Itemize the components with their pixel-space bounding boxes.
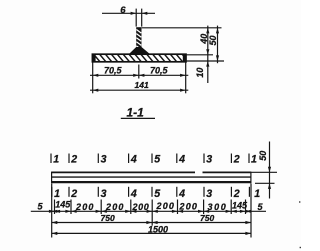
dimension 6 (web thickness) — [102, 5, 155, 26]
dimension 50 (bar height) — [252, 142, 278, 199]
svg-text:70,5: 70,5 — [150, 65, 169, 75]
svg-text:5: 5 — [38, 202, 44, 212]
svg-text:200: 200 — [156, 201, 176, 211]
svg-text:3: 3 — [206, 153, 212, 165]
svg-text:4: 4 — [178, 188, 185, 200]
chain dimension extension lines — [55, 200, 246, 215]
svg-text:141: 141 — [135, 80, 149, 90]
svg-text:3: 3 — [101, 188, 107, 200]
svg-text:5: 5 — [154, 188, 161, 200]
flange plate section — [92, 54, 186, 62]
weld fillets at web base — [129, 47, 151, 54]
svg-text:4: 4 — [130, 188, 137, 200]
svg-text:3: 3 — [206, 188, 212, 200]
svg-text:2: 2 — [233, 153, 240, 165]
svg-text:1: 1 — [53, 153, 59, 165]
svg-text:145: 145 — [55, 199, 71, 209]
svg-text:2: 2 — [70, 188, 77, 200]
dimension 750 left — [52, 213, 251, 224]
svg-text:1: 1 — [251, 153, 257, 165]
dimension 1500 — [52, 225, 251, 235]
svg-text:200: 200 — [105, 202, 125, 212]
extension line from flange top right — [186, 54, 213, 56]
dimension 141 — [90, 80, 188, 92]
extension lines below flange — [93, 63, 186, 94]
chain dimension labels — [38, 199, 264, 212]
web plate section — [136, 27, 141, 49]
extension line from web top — [142, 27, 222, 29]
svg-text:145: 145 — [232, 200, 248, 210]
dimension 50 — [208, 26, 219, 64]
mark ticks and numbers below bar — [52, 187, 260, 200]
svg-text:4: 4 — [130, 153, 137, 165]
svg-text:1500: 1500 — [148, 225, 168, 235]
centre extension line — [151, 200, 153, 226]
dimension 10 (flange thickness) — [195, 55, 209, 83]
svg-text:200: 200 — [132, 202, 150, 212]
dimension 70,5 left and right — [90, 65, 188, 77]
svg-text:3: 3 — [101, 153, 107, 165]
svg-text:750: 750 — [101, 213, 115, 223]
section label 1-1 — [121, 106, 155, 120]
plate elevation bar — [52, 171, 252, 183]
extension line from flange bottom right — [186, 60, 224, 62]
svg-text:2: 2 — [70, 153, 77, 165]
svg-text:1: 1 — [254, 188, 260, 200]
dimension 40 — [199, 26, 210, 55]
svg-text:50: 50 — [208, 35, 218, 45]
right end extension line — [250, 184, 252, 238]
svg-text:200: 200 — [179, 201, 199, 211]
scan speckles — [299, 201, 301, 248]
svg-text:50: 50 — [258, 151, 268, 161]
svg-text:6: 6 — [120, 5, 126, 16]
svg-text:10: 10 — [195, 68, 205, 78]
svg-text:200: 200 — [75, 202, 95, 212]
svg-text:1-1: 1-1 — [127, 106, 145, 120]
chain dimension line — [31, 210, 266, 213]
svg-text:2: 2 — [233, 188, 240, 200]
left end extension line — [51, 184, 53, 238]
svg-text:300: 300 — [208, 202, 228, 212]
svg-text:5: 5 — [258, 202, 264, 212]
svg-text:4: 4 — [178, 153, 185, 165]
svg-text:70,5: 70,5 — [104, 65, 123, 75]
mark ticks and numbers above bar — [51, 153, 257, 165]
svg-text:5: 5 — [154, 153, 161, 165]
svg-text:750: 750 — [200, 213, 214, 223]
